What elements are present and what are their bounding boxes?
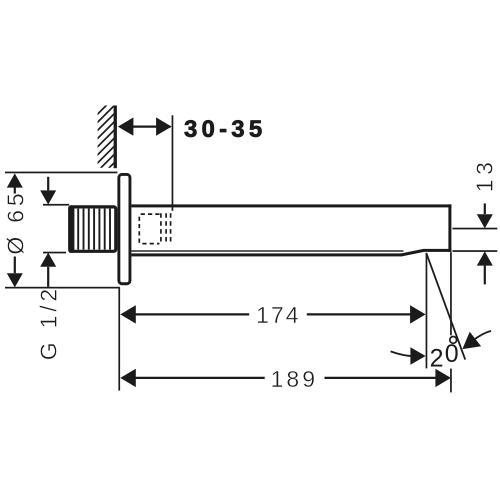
wall face line: [114, 106, 117, 169]
diameter 65 bottom arrowhead: [7, 273, 23, 287]
G 1/2 lower arrowhead: [40, 253, 56, 267]
G 1/2 dimension line: [47, 177, 49, 287]
escutcheon: [119, 174, 130, 283]
dimension 30-35 right arrowhead: [156, 117, 172, 135]
dimension 189 right arrowhead: [435, 369, 451, 387]
20 degree right arc tail: [474, 331, 492, 340]
dimension 189 left arrowhead: [120, 369, 136, 387]
spout main bottom edge: [131, 253, 402, 256]
dimension 30-35 left arrowhead: [118, 117, 133, 135]
G 1/2 bottom extension line: [43, 252, 66, 254]
diameter 65 bottom extension line: [5, 287, 120, 289]
svg-text:Ø 65: Ø 65: [2, 190, 28, 255]
extension line for 30-35: [172, 115, 174, 211]
wall hatch: [97, 96, 116, 180]
dimension 13 top extension line: [453, 228, 498, 230]
spout inner bottom line: [131, 250, 403, 251]
dimension 13 lower arrowhead: [477, 251, 493, 265]
extension line at spout outlet (174 right): [426, 253, 428, 369]
spout tip bottom edge: [423, 249, 451, 252]
spout tip right edge: [448, 204, 451, 252]
G 1/2 upper arrowhead: [40, 190, 56, 204]
spout body top edge: [131, 204, 451, 207]
thread lines: [78, 209, 110, 250]
hidden thread dashed lines: [161, 213, 171, 244]
extension line at spout tip (189 right): [450, 252, 452, 392]
dimension 174 left arrowhead: [120, 305, 136, 323]
20 degree left arc arrowhead: [410, 347, 425, 364]
20 degree left arc tail: [391, 351, 413, 356]
svg-text:30-35: 30-35: [184, 116, 266, 143]
spout underside taper line: [402, 250, 424, 255]
dimension 13 bottom extension line: [453, 250, 498, 252]
hidden connector dashed outline: [139, 214, 159, 244]
svg-text:13: 13: [472, 158, 498, 193]
threaded pipe left end cap: [68, 205, 74, 253]
dimension 13 upper arrowhead: [477, 214, 493, 228]
svg-text:2: 2: [430, 345, 444, 373]
dimension 174 right arrowhead: [410, 305, 426, 323]
svg-text:0: 0: [445, 340, 459, 368]
20 degree right arc arrowhead: [462, 332, 481, 349]
dimension 189 line: [135, 377, 436, 379]
svg-text:174: 174: [256, 302, 300, 328]
20 degree slanted line: [426, 253, 465, 360]
diameter 65 top extension line: [5, 172, 117, 174]
left extension line for 174 and 189: [118, 288, 120, 391]
degree symbol circle: [450, 337, 457, 344]
dimension 30-35 line: [120, 125, 171, 127]
svg-text:189: 189: [271, 366, 318, 392]
diameter 65 dimension line: [14, 188, 16, 274]
diameter 65 top arrowhead: [7, 173, 23, 187]
dimension 174 line: [135, 313, 411, 315]
svg-text:G 1/2: G 1/2: [36, 285, 62, 360]
threaded pipe G1/2 outline: [70, 207, 116, 251]
G 1/2 top extension line: [43, 204, 69, 206]
dimension 13 line: [484, 203, 486, 284]
